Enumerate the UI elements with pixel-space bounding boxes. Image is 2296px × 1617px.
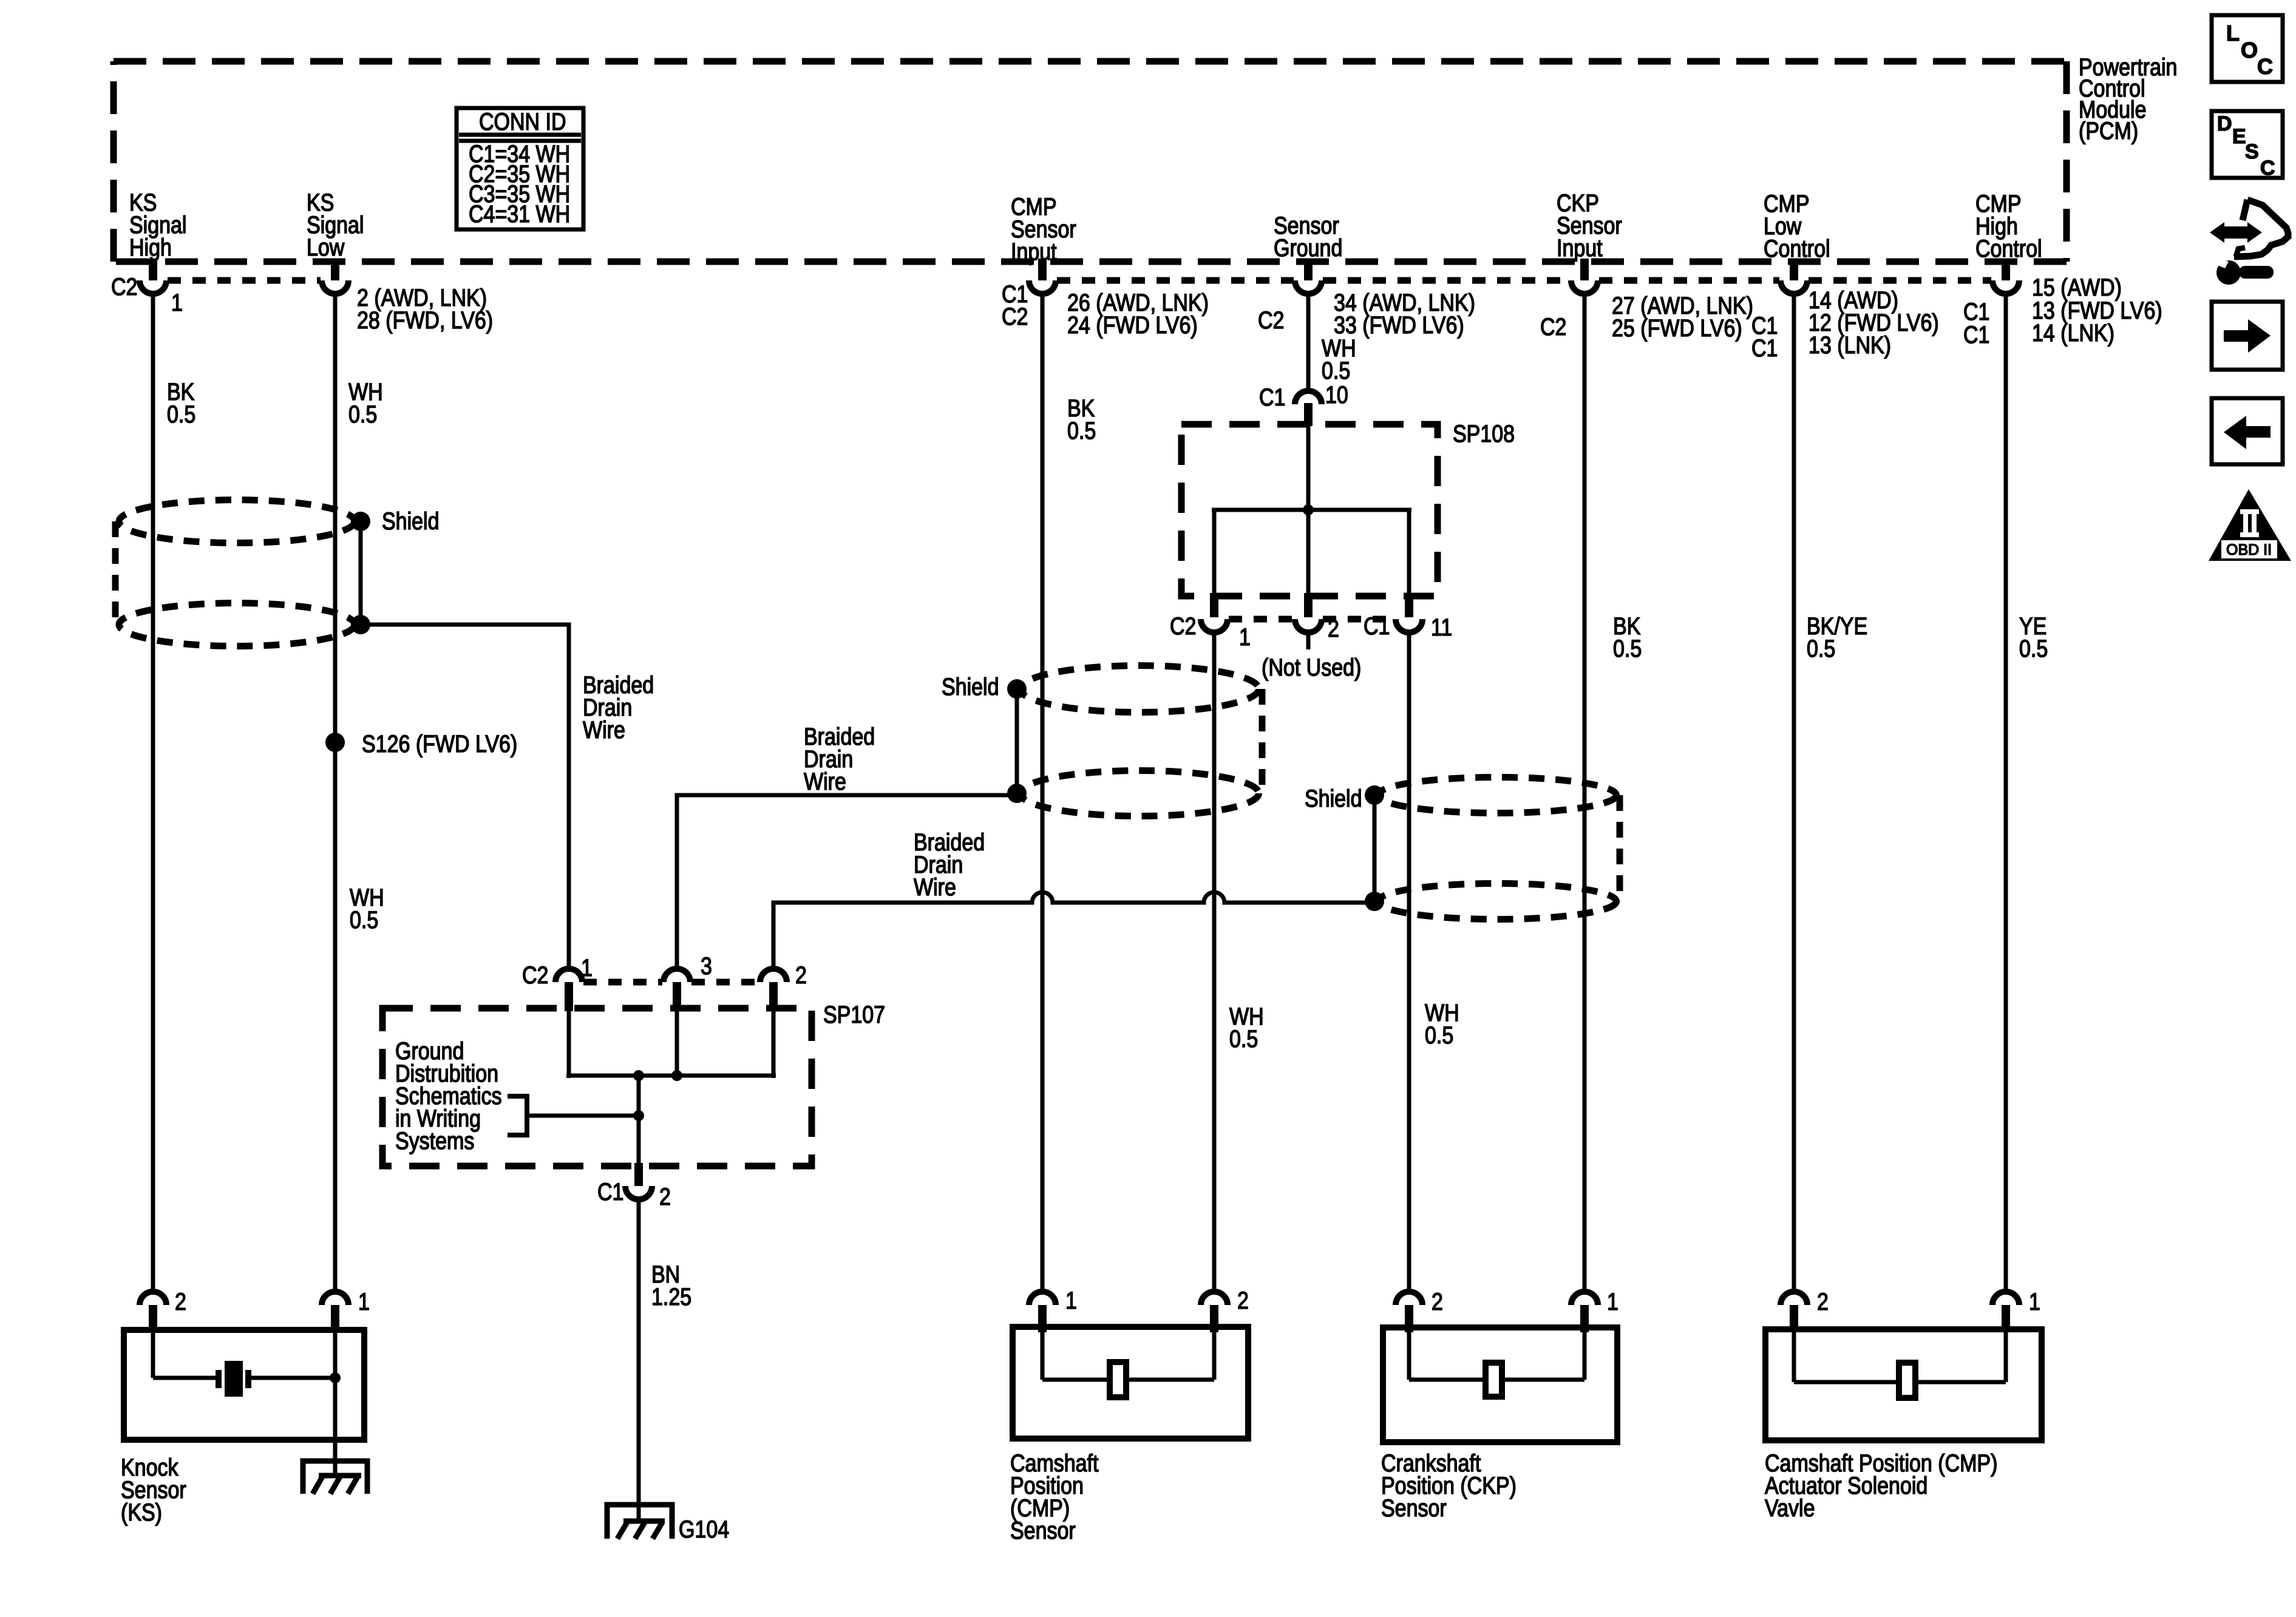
wire KS signal high BK <box>151 294 155 1290</box>
KS pin 1 connector <box>322 1287 370 1332</box>
SP107 junction dots <box>633 1070 644 1081</box>
splice pack SP108 dashed box <box>1181 419 1515 596</box>
PCM pin KS Signal High header <box>129 188 186 260</box>
icon left arrow <box>2212 398 2283 464</box>
CKP pin 2 connector <box>1396 1287 1443 1332</box>
PCM pin CMP High Control header <box>1975 189 2042 262</box>
wire label BK 0.5 <box>167 378 195 427</box>
Crankshaft Position Sensor box <box>1383 1327 1617 1442</box>
SP108 connector pin 2 (not used) <box>1262 593 1361 681</box>
wire label BK 0.5 <box>1067 394 1096 444</box>
splice pack SP107 dashed box <box>382 1000 885 1166</box>
svg-text:10: 10 <box>1325 381 1348 408</box>
svg-text:Shield: Shield <box>382 507 439 534</box>
SP107 connector dotted line <box>583 979 662 986</box>
svg-text:1: 1 <box>2029 1287 2040 1315</box>
svg-text:C2: C2 <box>111 273 137 300</box>
wire sensor ground WH upper <box>1306 294 1311 392</box>
wire label WH 0.5 <box>1425 998 1459 1048</box>
shield around CKP wires (right) <box>1305 778 1620 920</box>
svg-text:SP108: SP108 <box>1453 419 1515 447</box>
connector C2 dotted line (KS pins) <box>168 277 321 284</box>
svg-text:2: 2 <box>175 1287 186 1315</box>
svg-text:C1: C1 <box>1259 383 1285 410</box>
svg-text:24 (FWD LV6): 24 (FWD LV6) <box>1067 311 1198 338</box>
svg-text:1: 1 <box>171 288 183 316</box>
SP107 internal wires and bus <box>566 1011 776 1078</box>
connector dotted line (C1/C2 pins right section) <box>1057 277 1294 284</box>
svg-text:C1: C1 <box>1751 334 1778 361</box>
svg-text:28 (FWD, LV6): 28 (FWD, LV6) <box>357 306 493 333</box>
svg-text:C4=31 WH: C4=31 WH <box>469 200 570 227</box>
wire WH from SP108 pin 11 to CKP sensor <box>1407 631 1411 1290</box>
svg-text:(PCM): (PCM) <box>2079 117 2138 144</box>
CMP pin 2 connector <box>1201 1286 1249 1332</box>
ACT pin 1 connector <box>1992 1287 2040 1332</box>
svg-text:Systems: Systems <box>395 1127 474 1154</box>
svg-text:1.25: 1.25 <box>651 1283 691 1310</box>
wire KS signal low WH <box>333 294 338 1290</box>
PCM pin CMP Low Control connector C1/C1 14/12/13 <box>1751 259 1939 362</box>
SP107 down wire to C1-2 <box>637 1076 641 1163</box>
PCM dashed box (Powertrain Control Module) <box>114 61 2067 262</box>
Camshaft Position Sensor box <box>1013 1327 1248 1439</box>
svg-text:O: O <box>2241 38 2258 63</box>
svg-text:25 (FWD LV6): 25 (FWD LV6) <box>1612 314 1742 341</box>
svg-text:0.5: 0.5 <box>350 906 378 933</box>
svg-text:0.5: 0.5 <box>1807 634 1835 662</box>
svg-text:2: 2 <box>1328 614 1339 642</box>
braided drain wire from SP107 pin 2 to right shield with hops <box>773 828 1374 967</box>
ground G104 <box>607 1505 729 1543</box>
svg-text:2: 2 <box>1817 1287 1829 1315</box>
svg-text:Sensor: Sensor <box>1010 1516 1076 1544</box>
svg-text:C2: C2 <box>1258 306 1284 333</box>
svg-text:1: 1 <box>1607 1287 1618 1315</box>
svg-text:1: 1 <box>581 954 593 981</box>
icon DESC <box>2212 111 2283 180</box>
wire CMP high control YE <box>2004 294 2008 1290</box>
SP108 connector dotted line <box>1229 616 1294 623</box>
svg-text:0.5: 0.5 <box>1613 634 1642 662</box>
icon jump-wrench <box>2210 200 2288 285</box>
svg-text:Control: Control <box>1975 234 2042 262</box>
svg-text:C2: C2 <box>1002 302 1028 330</box>
svg-text:0.5: 0.5 <box>2019 634 2048 662</box>
svg-text:OBD II: OBD II <box>2226 541 2272 558</box>
connector C1 pin 2 below SP107 <box>597 1163 671 1210</box>
braided drain wire from KS shield to SP107 pin 1 <box>361 625 654 967</box>
CKP pin 1 connector <box>1571 1287 1618 1332</box>
CKP label <box>1381 1449 1517 1521</box>
svg-text:0.5: 0.5 <box>348 400 377 427</box>
svg-text:14 (LNK): 14 (LNK) <box>2032 319 2114 346</box>
svg-text:11: 11 <box>1431 613 1452 640</box>
svg-text:CONN ID: CONN ID <box>479 107 566 135</box>
svg-text:Sensor: Sensor <box>1381 1494 1447 1521</box>
PCM pin CMP Sensor Input header <box>1011 192 1076 265</box>
svg-text:Vavle: Vavle <box>1765 1494 1815 1521</box>
splice S126 (FWD LV6) <box>325 730 517 757</box>
svg-text:C: C <box>2260 157 2275 180</box>
svg-text:2: 2 <box>795 961 807 988</box>
svg-text:G104: G104 <box>679 1515 729 1542</box>
ACT label <box>1765 1449 1997 1521</box>
SP108 connector C1 pin 11 <box>1364 593 1452 641</box>
wire CKP sensor input BK <box>1583 294 1587 1290</box>
PCM label <box>2079 53 2177 144</box>
svg-text:C2: C2 <box>1540 313 1566 340</box>
svg-text:C1: C1 <box>1963 320 1989 348</box>
PCM pin KS Signal High connector C2-1 <box>111 259 183 316</box>
svg-text:Input: Input <box>1557 234 1603 261</box>
svg-text:2: 2 <box>659 1182 671 1210</box>
svg-text:Ground: Ground <box>1274 234 1342 261</box>
svg-text:S: S <box>2245 140 2259 163</box>
svg-text:0.5: 0.5 <box>1425 1021 1453 1048</box>
svg-text:1: 1 <box>358 1287 370 1315</box>
PCM pin KS Signal Low connector pin 2/28 <box>322 259 493 334</box>
PCM pin KS Signal Low header <box>307 188 364 260</box>
svg-text:Shield: Shield <box>1305 784 1362 812</box>
svg-text:0.5: 0.5 <box>1067 416 1096 444</box>
svg-text:High: High <box>129 233 172 260</box>
shield around CMP wires (center) <box>942 666 1262 816</box>
ground distribution reference text <box>395 1037 502 1154</box>
svg-text:D: D <box>2217 112 2232 135</box>
svg-text:0.5: 0.5 <box>167 400 195 427</box>
svg-text:Input: Input <box>1011 237 1057 265</box>
svg-text:C: C <box>2257 54 2273 79</box>
shield around KS wires <box>115 500 439 646</box>
PCM pin CMP Low Control header <box>1764 189 1830 262</box>
svg-text:Control: Control <box>1764 234 1830 262</box>
KS pin 2 connector <box>140 1287 186 1332</box>
svg-text:1: 1 <box>1239 623 1251 650</box>
ACT internal solenoid element <box>1794 1332 2006 1398</box>
svg-text:Shield: Shield <box>942 673 999 700</box>
svg-text:(Not Used): (Not Used) <box>1262 653 1361 680</box>
svg-text:(KS): (KS) <box>121 1498 162 1525</box>
CMP Actuator Solenoid Valve box <box>1765 1329 2042 1440</box>
icon OBD II triangle <box>2209 489 2291 561</box>
wire label WH 0.5 lower <box>350 883 384 933</box>
KS label <box>121 1453 186 1525</box>
PCM pin Sensor Ground header <box>1274 211 1342 261</box>
wire CMP sensor input BK <box>1041 294 1045 1290</box>
PCM pin CMP Sensor Input connector C1/C2 26/24 <box>1002 259 1209 339</box>
wire BN 1.25 to G104 <box>639 1199 691 1521</box>
SP108 internal wires <box>1212 425 1411 596</box>
svg-text:0.5: 0.5 <box>1322 356 1350 384</box>
svg-text:Wire: Wire <box>914 873 956 900</box>
svg-text:Wire: Wire <box>583 716 625 743</box>
PCM pin CMP High Control connector C1/C1 15/13/14 <box>1963 259 2162 348</box>
wire label WH 0.5 <box>348 378 383 427</box>
SP107 connector C2 pin 1 <box>522 954 593 1011</box>
CMP pin 1 connector <box>1029 1286 1077 1332</box>
SP107 connector pin 3 <box>664 952 712 1011</box>
svg-text:C2: C2 <box>1170 612 1196 639</box>
Knock Sensor box <box>124 1330 364 1440</box>
svg-text:C1: C1 <box>597 1178 623 1205</box>
svg-text:E: E <box>2232 125 2246 148</box>
wire CMP low control BK/YE <box>1792 294 1796 1290</box>
ACT pin 2 connector <box>1781 1287 1829 1332</box>
ground distribution reference bracket <box>508 1096 644 1135</box>
CMP label <box>1010 1449 1099 1544</box>
CONN ID table <box>457 107 583 229</box>
SP108 junction dot <box>1303 504 1314 515</box>
svg-text:L: L <box>2226 21 2240 46</box>
PCM pin Sensor Ground connector C2 34/33 <box>1258 259 1475 339</box>
svg-text:Wire: Wire <box>804 767 846 795</box>
svg-text:S126 (FWD LV6): S126 (FWD LV6) <box>362 730 517 757</box>
SP107 connector pin 2 <box>760 961 807 1011</box>
PCM pin CKP Sensor Input header <box>1557 189 1622 261</box>
wire label BK 0.5 <box>1613 612 1642 662</box>
CKP internal element <box>1409 1332 1584 1397</box>
svg-text:2: 2 <box>1237 1286 1249 1314</box>
CMP internal element <box>1042 1332 1214 1397</box>
svg-text:3: 3 <box>701 952 712 979</box>
svg-text:Low: Low <box>307 233 345 260</box>
KS component case ground <box>303 1461 367 1494</box>
PCM pin CKP Sensor Input connector C2 27/25 <box>1540 259 1753 342</box>
connector C1 pin 10 <box>1259 381 1348 426</box>
svg-text:C2: C2 <box>522 961 548 988</box>
SP108 connector C2 pin 1 <box>1170 593 1251 651</box>
svg-text:SP107: SP107 <box>823 1000 885 1028</box>
wire label BK/YE 0.5 <box>1807 612 1867 662</box>
wire label WH 0.5 <box>1322 334 1356 384</box>
wire WH from SP108 pin 1 to CMP sensor <box>1212 631 1217 1290</box>
wire label YE 0.5 <box>2019 612 2048 662</box>
svg-text:0.5: 0.5 <box>1229 1025 1258 1052</box>
wire label WH 0.5 <box>1229 1002 1264 1052</box>
icon LOC <box>2212 15 2283 82</box>
svg-text:13 (LNK): 13 (LNK) <box>1809 331 1891 358</box>
svg-text:C1: C1 <box>1364 612 1390 639</box>
svg-text:2: 2 <box>1432 1287 1443 1315</box>
KS internal piezo element <box>153 1332 341 1476</box>
svg-text:1: 1 <box>1065 1286 1077 1314</box>
icon right arrow <box>2212 302 2283 370</box>
braided drain wire from SP107 pin 3 to center shield <box>677 722 1017 967</box>
